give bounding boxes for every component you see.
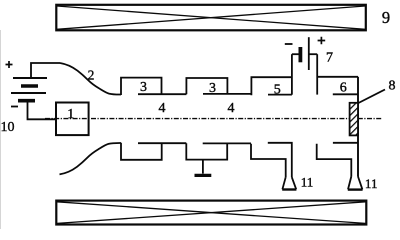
svg-text:9: 9 [382, 8, 390, 27]
svg-text:11: 11 [301, 174, 314, 189]
battery B1 minus sign [11, 106, 18, 108]
pump funnel 11b flare [348, 177, 362, 190]
battery B1 long plate 1 [13, 77, 47, 79]
battery 7 long plate (plus) [308, 37, 310, 70]
svg-text:8: 8 [389, 79, 396, 94]
battery B1 wire to box 1 [28, 103, 57, 120]
svg-text:2: 2 [88, 68, 95, 83]
battery 7 plus sign [318, 37, 326, 44]
pump funnel 11a flare [282, 177, 296, 189]
drift tube 5 (bottom) with funnel wall [251, 144, 286, 177]
solenoid top diagonal \ [57, 6, 365, 29]
svg-text:1: 1 [67, 107, 74, 122]
target 8 leader line [358, 90, 385, 104]
battery 7 wire from tube 5 [292, 53, 299, 55]
battery B1 thick plate 1 [21, 84, 38, 88]
solenoid top diagonal / [57, 6, 365, 29]
battery B1 wire to electrode 2 [31, 63, 60, 78]
svg-text:5: 5 [274, 83, 281, 98]
beam axis dash-dot line [45, 118, 382, 120]
drift tube 6 left wall / wire to battery 7 plus [316, 54, 318, 94]
drift tube 3a inner lip (top) [138, 93, 186, 95]
drift tube 5 inner lip (top) [268, 94, 292, 96]
battery B1 plus sign [6, 61, 13, 68]
drift tube 6 top edge [317, 76, 358, 78]
drift tube 6 inner lip (top) [333, 93, 358, 95]
battery 7 thick plate (minus) [298, 47, 302, 62]
drift tube 3b (top) [186, 78, 227, 94]
svg-text:4: 4 [228, 101, 235, 116]
solenoid coil 9 (top magnet winding box) [56, 5, 366, 31]
battery B1 thick plate 2 [18, 99, 35, 103]
ion source box 1 [56, 103, 89, 136]
svg-text:7: 7 [326, 51, 333, 66]
svg-text:4: 4 [159, 101, 166, 116]
battery 7 wire to tube 6 [309, 53, 317, 55]
solenoid bottom diagonal \ [57, 202, 366, 224]
svg-text:3: 3 [140, 80, 147, 95]
battery B1 long plate 2 [11, 92, 46, 94]
battery 7 minus sign [285, 43, 293, 45]
drift tube 5 right wall / wire to battery 7 minus [291, 54, 293, 94]
drift tube 5 (top) [251, 77, 292, 95]
drift tube 6 (bottom) with funnel wall [317, 144, 352, 177]
drift tube 3a (bottom) [121, 143, 162, 160]
end wall (right, holds target) [357, 77, 359, 177]
drift tube 5 inner lip (bottom) turning into funnel right wall [268, 143, 292, 177]
ground stem [202, 160, 204, 174]
ground bar [195, 174, 212, 177]
svg-text:6: 6 [340, 81, 347, 96]
focusing electrode (bottom curve) [60, 143, 122, 174]
scan edge artifact [0, 30, 2, 229]
pump funnel 11b bottom [348, 188, 363, 190]
drift tube 6 inner lip (bottom) [333, 142, 358, 144]
drift tube 3b (bottom) [186, 143, 227, 159]
drift tube 3b inner lip (bottom) [203, 142, 251, 144]
solenoid coil 9 (bottom magnet winding box) [56, 201, 366, 225]
drift tube 3a (top) [121, 78, 162, 95]
svg-text:11: 11 [365, 176, 378, 191]
pump funnel 11a bottom [282, 188, 296, 190]
drift tube 3b inner lip (top) [203, 93, 251, 95]
svg-text:3: 3 [209, 81, 216, 96]
solenoid bottom diagonal / [57, 202, 366, 224]
drift tube 3a inner lip (bottom) [138, 142, 186, 144]
focusing electrode 2 (top curve) [60, 63, 121, 95]
svg-text:10: 10 [1, 120, 15, 135]
target 8 (hatched) [350, 103, 358, 136]
